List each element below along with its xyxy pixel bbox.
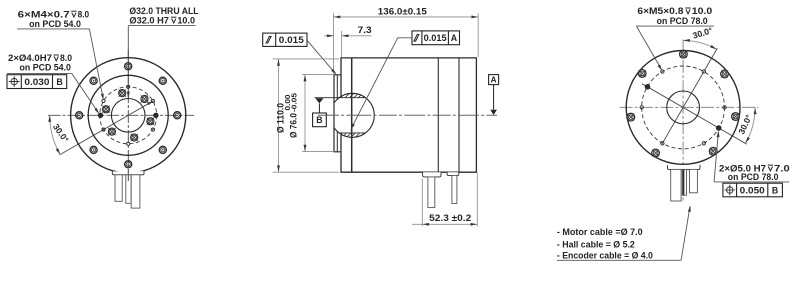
section circle (bore) bbox=[330, 93, 374, 137]
outer circle bbox=[626, 51, 740, 165]
socket screw at 165 deg bbox=[102, 106, 109, 113]
mounting bolt at 315 deg bbox=[159, 146, 166, 153]
horizontal centerline bbox=[48, 114, 194, 116]
mounting bolt at 180 deg bbox=[76, 112, 83, 119]
angular arc 30 deg right bbox=[745, 107, 755, 143]
svg-text:on PCD 54.0: on PCD 54.0 bbox=[20, 63, 71, 73]
chord lines and hatching bbox=[315, 97, 366, 99]
dowel hole at 150 deg (5.0 H7) bbox=[645, 84, 650, 89]
internal vertical line (flange joint) bbox=[351, 58, 353, 172]
angular dimension arc 30 deg bbox=[50, 115, 61, 154]
flatness frame right 0.015 A bbox=[412, 31, 460, 45]
bolt circle PCD 54 (dashed) bbox=[100, 87, 157, 144]
mounting bolt at 225 deg bbox=[90, 146, 97, 153]
svg-text:136.0±0.15: 136.0±0.15 bbox=[378, 6, 427, 16]
M5 tapped hole at 300 deg bbox=[702, 142, 705, 145]
position tolerance frame 0.050 B bbox=[723, 183, 783, 197]
leader line from bore label (vertical) bbox=[127, 26, 129, 98]
diagonal 30-210 radial line bbox=[60, 101, 154, 155]
svg-text:10.0: 10.0 bbox=[692, 6, 713, 16]
svg-text:Ø 76.0: Ø 76.0 bbox=[289, 113, 299, 138]
angular arc 30 deg top bbox=[683, 40, 717, 49]
horizontal centerline bbox=[318, 114, 497, 116]
cable gland plate (right view) bbox=[668, 165, 701, 170]
svg-text:B: B bbox=[772, 185, 778, 195]
dimension D110.0 bbox=[273, 58, 340, 60]
left view: front face of motor bbox=[48, 26, 194, 204]
cable gland 2 (middle view) bbox=[447, 172, 459, 175]
dowel hole right (4.0 H7) bbox=[154, 113, 159, 118]
svg-text:Ø32.0 H7: Ø32.0 H7 bbox=[129, 15, 169, 25]
mounting bolt at 0 deg bbox=[174, 112, 181, 119]
M5 tapped hole at 240 deg bbox=[661, 142, 664, 145]
dimension 7.3 bbox=[341, 31, 343, 57]
svg-text:- Encoder cable = Ø 4.0: - Encoder cable = Ø 4.0 bbox=[557, 250, 653, 260]
body outline bbox=[341, 58, 476, 172]
mounting bolt at 270 deg bbox=[125, 161, 132, 168]
hub plate (rotor face) bbox=[334, 75, 341, 152]
svg-text:-0.05: -0.05 bbox=[291, 93, 298, 112]
leader to dowel hole bbox=[7, 72, 72, 74]
M4 tapped hole at 270 deg bbox=[127, 142, 130, 145]
dowel hole at 330 deg (5.0 H7) bbox=[716, 126, 721, 131]
cable 2 (left view) bbox=[126, 175, 131, 204]
cable gland 1 (middle view) bbox=[423, 172, 441, 177]
dimension D76.0 0.00/-0.05 bbox=[302, 74, 334, 76]
horizontal centerline bbox=[620, 106, 759, 108]
cover bolt at 304.5 deg bbox=[709, 147, 717, 155]
motor cable (middle view) bbox=[428, 177, 435, 208]
M4 tapped hole at 330 deg bbox=[151, 128, 154, 131]
flatness frame left 0.015 bbox=[263, 33, 307, 46]
M5 tapped hole at 60 deg bbox=[702, 70, 705, 73]
cover bolt at 238.9 deg bbox=[652, 149, 660, 157]
socket screw at 285 deg bbox=[131, 134, 138, 141]
vertical centerline bbox=[127, 50, 129, 204]
M4 tapped hole at 150 deg bbox=[102, 99, 105, 102]
centerline over cables bbox=[127, 169, 129, 181]
M5 tapped hole at 0 deg bbox=[723, 106, 726, 109]
svg-text:10.0: 10.0 bbox=[177, 15, 195, 25]
svg-text:A: A bbox=[451, 33, 458, 43]
hall cable (middle view) bbox=[452, 175, 457, 203]
mounting bolt at 90 deg bbox=[125, 63, 132, 70]
socket screw at 225 deg bbox=[108, 128, 115, 135]
hall cable (right view) bbox=[690, 169, 698, 192]
svg-text:52.3 ±0.2: 52.3 ±0.2 bbox=[429, 213, 471, 223]
cover bolt at 38.9 deg bbox=[721, 70, 729, 78]
svg-text:0.015: 0.015 bbox=[424, 33, 447, 43]
internal vertical line bbox=[437, 58, 439, 172]
socket screw at 45 deg bbox=[141, 95, 148, 102]
dimension 136.0 +-0.15 bbox=[333, 13, 335, 74]
M4 tapped hole at 30 deg bbox=[151, 99, 154, 102]
outer flange circle bbox=[71, 58, 186, 173]
leader from cable list to cables bbox=[681, 207, 690, 260]
svg-text:0.050: 0.050 bbox=[740, 185, 765, 195]
svg-text:on PCD 78.0: on PCD 78.0 bbox=[657, 16, 708, 26]
M4 tapped hole at 90 deg bbox=[127, 85, 130, 88]
svg-text:on PCD 78.0: on PCD 78.0 bbox=[728, 172, 779, 182]
centerline over cables bbox=[683, 169, 685, 195]
center bore circle (D32) bbox=[111, 99, 145, 133]
svg-text:on PCD 54.0: on PCD 54.0 bbox=[29, 19, 81, 29]
internal vertical line (rear joint) bbox=[458, 58, 460, 172]
encoder cable (right view) bbox=[682, 169, 686, 195]
M5 tapped hole at 180 deg bbox=[640, 106, 643, 109]
leader line to M4 hole bbox=[17, 28, 89, 30]
datum B flag bbox=[315, 98, 323, 103]
leader from left flatness frame bbox=[307, 40, 336, 74]
svg-text:0.030: 0.030 bbox=[24, 77, 49, 87]
M4 tapped hole at 210 deg bbox=[102, 128, 105, 131]
motor cable (right view) bbox=[671, 169, 681, 201]
cable gland plate (left view) bbox=[112, 171, 144, 175]
leader from right flatness frame bbox=[351, 38, 412, 129]
datum A flag bbox=[489, 75, 499, 85]
svg-text:- Motor cable =Ø 7.0: - Motor cable =Ø 7.0 bbox=[557, 227, 643, 237]
dimension 52.3 +-0.2 bbox=[421, 179, 423, 227]
cover bolt at 190.5 deg bbox=[627, 113, 635, 121]
svg-text:- Hall cable = Ø 5.2: - Hall cable = Ø 5.2 bbox=[557, 240, 635, 250]
mounting bolt at 45 deg bbox=[159, 77, 166, 84]
arrowhead at 30deg end on PCD circle bbox=[147, 99, 154, 105]
dowel hole left (4.0 H7) bbox=[98, 113, 103, 118]
radial line 60-240 bbox=[662, 48, 717, 143]
leader underline for bore label bbox=[128, 25, 195, 27]
cover bolt at 89.7 deg bbox=[680, 50, 688, 58]
leader to dowel bbox=[714, 132, 718, 182]
inner body circle bbox=[88, 75, 168, 155]
vertical centerline bbox=[682, 40, 684, 204]
cover bolt at 350.2 deg bbox=[732, 113, 740, 121]
svg-text:A: A bbox=[491, 76, 497, 85]
svg-text:B: B bbox=[56, 77, 62, 87]
mounting bolt at 135 deg bbox=[90, 77, 97, 84]
svg-text:7.3: 7.3 bbox=[358, 25, 372, 35]
bolt circle PCD 78 (dashed) bbox=[642, 66, 725, 149]
svg-text:6×M5×0.8: 6×M5×0.8 bbox=[637, 6, 683, 16]
socket screw at 345 deg bbox=[147, 118, 154, 125]
center bore circle bbox=[667, 91, 700, 124]
svg-text:0.015: 0.015 bbox=[279, 35, 304, 45]
leader to M5 hole bbox=[636, 26, 661, 69]
radial line 150-330 (dowel axis) bbox=[642, 84, 747, 145]
hub inner line bbox=[336, 75, 338, 99]
cable 1 (left view) bbox=[115, 175, 122, 202]
cover bolt at 140.3 deg bbox=[638, 70, 646, 78]
M5 tapped hole at 120 deg bbox=[661, 70, 664, 73]
socket screw at 105 deg bbox=[119, 90, 126, 97]
right view: rear face of motor bbox=[620, 25, 759, 203]
cable 3 (left view) bbox=[131, 175, 140, 208]
svg-text:B: B bbox=[316, 115, 322, 125]
position tolerance frame 0.030 B bbox=[7, 75, 67, 89]
